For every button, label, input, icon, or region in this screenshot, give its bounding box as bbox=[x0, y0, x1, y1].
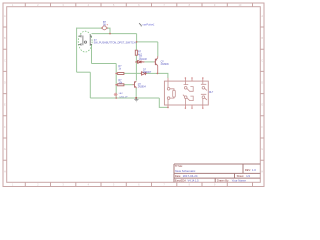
relay coil bbox=[167, 81, 175, 105]
svg-text:D: D bbox=[261, 81, 263, 85]
svg-text:C: C bbox=[261, 58, 263, 62]
svg-text:V4.14.1.5: V4.14.1.5 bbox=[188, 179, 200, 183]
svg-text:SW_PUSHBUTTON_DPST_SWITCH: SW_PUSHBUTTON_DPST_SWITCH bbox=[94, 42, 136, 45]
node lamp bottom junction bbox=[115, 97, 117, 99]
wire Q2 emitter vertical bbox=[157, 42, 159, 57]
svg-text:Date:: Date: bbox=[175, 174, 181, 178]
switch S? symbol bbox=[78, 35, 92, 46]
battery B? bbox=[101, 26, 107, 30]
wire bottom rail bbox=[90, 97, 159, 99]
diode D1 1N4007 bbox=[141, 72, 147, 75]
svg-text:varPulse1: varPulse1 bbox=[143, 22, 155, 26]
svg-text:1256_1P: 1256_1P bbox=[119, 96, 128, 98]
svg-text:Drawn By:: Drawn By: bbox=[217, 179, 229, 183]
svg-text:+: + bbox=[106, 23, 108, 27]
wire rail step down right bbox=[159, 98, 168, 107]
wire battery positive to rail bbox=[107, 28, 110, 33]
probe varPulse1 bbox=[139, 23, 141, 26]
wire Q1 emitter to rail bbox=[135, 88, 137, 98]
wire switch output down bbox=[91, 44, 93, 63]
svg-text:C: C bbox=[4, 58, 6, 62]
svg-text:G: G bbox=[261, 147, 263, 151]
wire to Q2 emitter horizontal bbox=[137, 41, 158, 43]
node rail corner junction bbox=[136, 41, 138, 43]
svg-text:D: D bbox=[4, 81, 6, 85]
wire switch output horizontal bbox=[92, 63, 117, 65]
wire R3 bottom to Q1 collector bbox=[135, 55, 137, 80]
wire left vertical battery minus down bbox=[76, 28, 78, 73]
svg-text:1/1: 1/1 bbox=[246, 174, 250, 178]
svg-text:H: H bbox=[261, 169, 263, 173]
sheet frame (decorative) bbox=[3, 3, 264, 187]
svg-text:1.0: 1.0 bbox=[252, 168, 256, 172]
node R1 left junction bbox=[115, 73, 117, 75]
svg-text:E: E bbox=[261, 103, 263, 107]
svg-text:New Schematic: New Schematic bbox=[175, 169, 196, 173]
node R2 left junction bbox=[115, 84, 117, 86]
svg-text:B: B bbox=[4, 36, 6, 40]
svg-text:A: A bbox=[4, 14, 6, 18]
wire D2 to Q2 base bbox=[144, 61, 154, 63]
wire R2 to Q1 base bbox=[124, 84, 133, 86]
svg-text:EasyEDA: EasyEDA bbox=[175, 179, 186, 183]
transistor Q2 PNP 2N3906 bbox=[154, 56, 158, 73]
wire D1 cathode to node bbox=[146, 72, 158, 74]
node relay coil bottom junction bbox=[167, 107, 169, 109]
node Q1 emitter junction bbox=[135, 97, 137, 99]
svg-text:E: E bbox=[4, 103, 6, 107]
node D1 Q2 relay junction bbox=[157, 73, 159, 75]
wire top rail bbox=[92, 33, 137, 35]
svg-text:A: A bbox=[261, 14, 263, 18]
lamp EL? bbox=[114, 93, 118, 97]
relay pole 1 contacts bbox=[183, 81, 193, 105]
svg-text:G: G bbox=[4, 147, 6, 151]
wire left step vertical to bottom rail bbox=[89, 72, 91, 98]
title block (decorative) bbox=[174, 164, 260, 182]
svg-text:B: B bbox=[261, 36, 263, 40]
transistor Q1 NPN 2N3904 bbox=[133, 81, 137, 88]
wire divider vertical bbox=[115, 64, 117, 99]
wire left step horizontal bbox=[77, 71, 91, 73]
resistor R3 vertical bbox=[135, 50, 137, 55]
svg-text:2N3906: 2N3906 bbox=[161, 64, 170, 66]
svg-text:REV:: REV: bbox=[245, 168, 251, 172]
relay pin end marks bbox=[185, 77, 204, 109]
relay pole 2 contacts bbox=[201, 81, 207, 105]
relay pins bbox=[168, 78, 203, 108]
diode D2 1N4148 bbox=[135, 61, 144, 64]
svg-text:2017-04-24: 2017-04-24 bbox=[183, 174, 198, 178]
wire R3 top bbox=[135, 42, 137, 50]
svg-text:H: H bbox=[4, 169, 6, 173]
resistor R2 bbox=[118, 84, 124, 86]
wire rail down segment bbox=[136, 34, 138, 42]
node battery plus junction bbox=[109, 33, 111, 35]
svg-text:TITLE:: TITLE: bbox=[175, 164, 183, 168]
wire battery negative top horizontal bbox=[77, 27, 103, 29]
resistor R1 bbox=[118, 73, 124, 75]
ground bbox=[134, 98, 138, 102]
svg-text:Sheet:: Sheet: bbox=[237, 174, 245, 178]
relay RL? body bbox=[164, 81, 208, 105]
wire R1 to D1 anode bbox=[124, 72, 141, 74]
switch S? dashed ellipse bbox=[78, 31, 92, 52]
svg-text:RL?: RL? bbox=[209, 92, 214, 94]
svg-text:1N4148: 1N4148 bbox=[139, 59, 148, 61]
wire node to relay coil bbox=[157, 73, 168, 78]
svg-text:1N4007: 1N4007 bbox=[143, 71, 152, 74]
svg-text:Your Name: Your Name bbox=[232, 179, 247, 183]
svg-text:2N3904: 2N3904 bbox=[138, 87, 147, 89]
